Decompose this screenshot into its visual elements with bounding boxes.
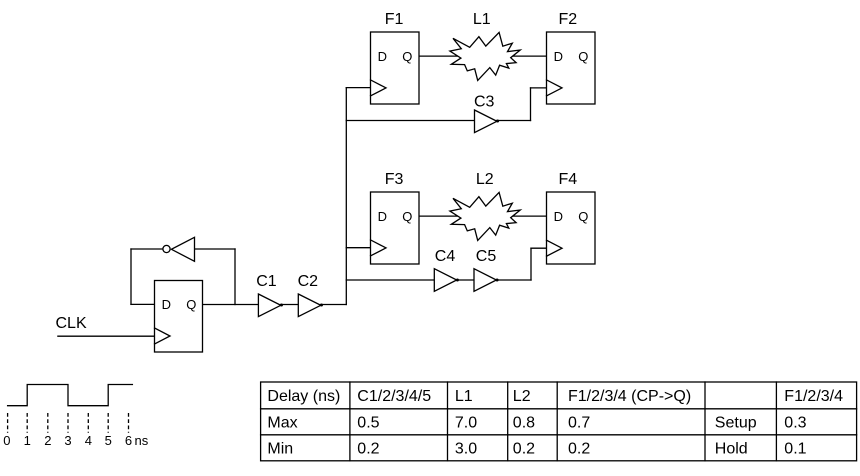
inverter output bubble [163, 245, 170, 252]
junction dot at C3 output [496, 120, 499, 123]
svg-text:Q: Q [578, 209, 588, 224]
wire C5 output vertical riser [530, 248, 532, 280]
svg-text:ns: ns [135, 433, 149, 448]
svg-text:0.2: 0.2 [568, 440, 590, 457]
svg-text:Q: Q [578, 49, 588, 64]
wire into F4 clock [531, 247, 547, 249]
svg-text:CLK: CLK [56, 315, 87, 332]
clock input wedge of F1 [371, 80, 387, 96]
svg-text:0.1: 0.1 [784, 440, 806, 457]
buffer C3 [475, 110, 500, 133]
clock input wedge of clockgen [155, 328, 171, 344]
wire bus to C4 input [346, 279, 434, 281]
wire feedback top to inverter input [195, 248, 236, 250]
svg-text:C1/2/3/4/5: C1/2/3/4/5 [357, 388, 431, 405]
svg-text:C1: C1 [256, 273, 277, 290]
svg-text:0.5: 0.5 [357, 414, 379, 431]
buffer C1 [258, 294, 283, 317]
svg-text:3.0: 3.0 [455, 440, 477, 457]
svg-text:Max: Max [267, 414, 297, 431]
svg-text:5: 5 [105, 433, 112, 448]
svg-text:0: 0 [3, 433, 10, 448]
junction dot at C2 output [320, 304, 323, 307]
flip-flop F4 [547, 192, 596, 264]
wire C1 output to C2 input [281, 304, 299, 306]
svg-text:C5: C5 [476, 248, 497, 265]
svg-text:1: 1 [24, 433, 31, 448]
svg-text:L2: L2 [513, 388, 531, 405]
svg-text:L1: L1 [473, 11, 491, 28]
time axis tick 6 [125, 413, 132, 448]
svg-text:0.8: 0.8 [513, 414, 535, 431]
clock input wedge of F2 [547, 80, 563, 96]
svg-text:C3: C3 [474, 94, 495, 111]
logic cloud L1 [450, 32, 520, 80]
svg-text:Hold: Hold [715, 440, 748, 457]
junction dot at C1 output [280, 304, 283, 307]
junction dot at C4 output [456, 279, 459, 282]
svg-text:L2: L2 [476, 171, 494, 188]
wire bus to F1 clock [346, 87, 370, 89]
wire clockgen Q output to C1 [203, 304, 259, 306]
buffer C5 [474, 269, 499, 292]
delay parameter table [261, 382, 857, 461]
svg-text:0.7: 0.7 [568, 414, 590, 431]
svg-text:D: D [162, 297, 171, 312]
buffer C4 [434, 269, 459, 292]
svg-text:F1: F1 [385, 11, 404, 28]
clock waveform [8, 385, 133, 406]
svg-text:0.3: 0.3 [784, 414, 806, 431]
svg-text:0.2: 0.2 [357, 440, 379, 457]
wire vertical clock distribution bus [345, 88, 347, 305]
svg-text:0.2: 0.2 [513, 440, 535, 457]
svg-text:F3: F3 [385, 171, 404, 188]
svg-text:Min: Min [267, 440, 293, 457]
flip-flop F2 [547, 32, 596, 104]
svg-text:F2: F2 [559, 11, 578, 28]
svg-text:Delay (ns): Delay (ns) [267, 388, 340, 405]
flip-flop F1 [371, 32, 420, 104]
svg-text:3: 3 [64, 433, 71, 448]
svg-text:F1/2/3/4 (CP->Q): F1/2/3/4 (CP->Q) [568, 388, 691, 405]
svg-text:D: D [554, 49, 563, 64]
svg-text:D: D [554, 209, 563, 224]
wire bus to F3 clock [346, 247, 370, 249]
svg-text:D: D [378, 49, 387, 64]
svg-text:C2: C2 [298, 273, 319, 290]
svg-text:C4: C4 [435, 248, 456, 265]
junction dot at C5 output [496, 279, 499, 282]
wire F1.Q to F2.D through L1 [419, 55, 547, 57]
time axis tick 0 [3, 413, 10, 448]
wire into F2 clock [531, 87, 547, 89]
svg-text:Setup: Setup [715, 414, 757, 431]
svg-text:F4: F4 [559, 171, 578, 188]
svg-text:6: 6 [125, 433, 132, 448]
time axis tick 4 [85, 413, 92, 448]
time axis tick 3 [64, 413, 71, 448]
wire C3 output horizontal [497, 120, 531, 122]
clock input wedge of F3 [371, 240, 387, 256]
time axis tick 1 [24, 413, 31, 448]
wire C2 output to bus [321, 304, 347, 306]
buffer C2 [298, 294, 323, 317]
wire feedback left drop [130, 249, 132, 304]
svg-text:Q: Q [402, 209, 412, 224]
wire feedback riser from Q node [234, 249, 236, 305]
wire C3 output vertical riser [530, 88, 532, 121]
wire inverter output left [131, 248, 163, 250]
inverter U1 in feedback loop [163, 237, 195, 261]
wire C4 output to C5 input [456, 279, 474, 281]
time axis tick 2 [44, 413, 51, 448]
wire feedback to clockgen D input [131, 303, 155, 305]
wire CLK input [58, 335, 155, 337]
clock input wedge of F4 [547, 240, 563, 256]
svg-text:7.0: 7.0 [455, 414, 477, 431]
svg-text:4: 4 [85, 433, 92, 448]
svg-text:2: 2 [44, 433, 51, 448]
wire F3.Q to F4.D through L2 [419, 215, 547, 217]
svg-text:L1: L1 [455, 388, 473, 405]
svg-text:D: D [378, 209, 387, 224]
flip-flop F3 [371, 192, 420, 264]
wire C5 output horizontal [496, 279, 531, 281]
wire bus to C3 input [346, 120, 474, 122]
logic cloud L2 [450, 192, 520, 240]
svg-text:Q: Q [402, 49, 412, 64]
svg-text:Q: Q [186, 297, 196, 312]
svg-text:F1/2/3/4: F1/2/3/4 [784, 388, 843, 405]
time axis tick 5 [105, 413, 112, 448]
clock generator flip-flop [155, 281, 203, 353]
